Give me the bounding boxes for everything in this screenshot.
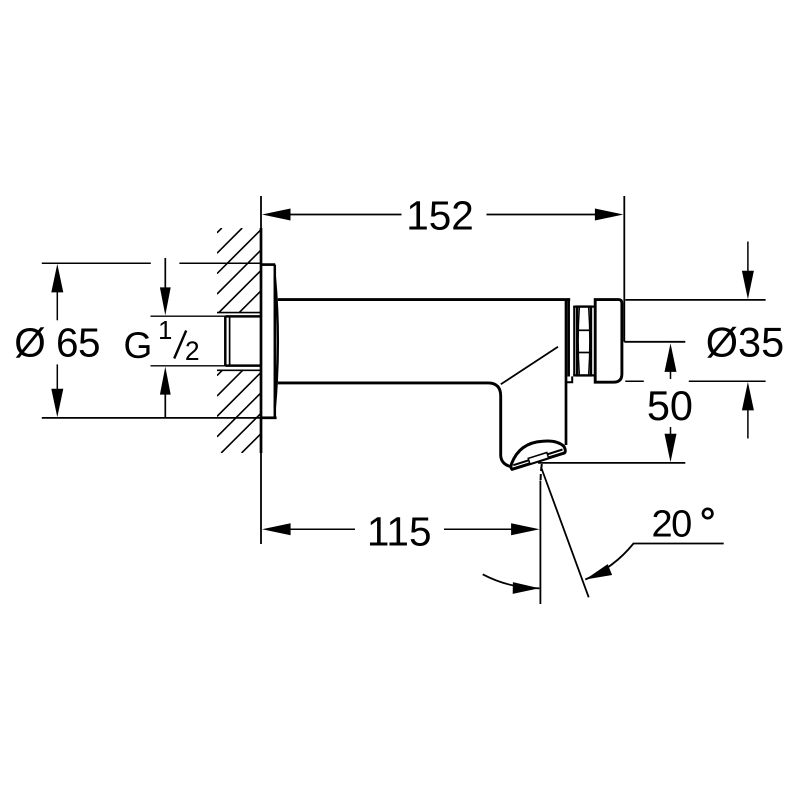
dim 152 left extension line (wall face top) <box>260 196 262 263</box>
flange dome arc <box>275 277 278 408</box>
body bottom edge and spout left edge <box>278 383 511 467</box>
wall face line <box>260 228 263 453</box>
dim Ø35 upper arrow (down) <box>742 242 754 300</box>
dim Ø65 bottom arrow <box>51 389 63 418</box>
fraction slash <box>174 331 186 359</box>
dim 152 left arrow <box>262 209 291 221</box>
dim G1/2 upper arrow (down) <box>160 258 171 315</box>
nipple chamfer line <box>229 317 231 365</box>
svg-text:Ø35: Ø35 <box>706 319 784 366</box>
angle 20° left arc <box>483 574 540 588</box>
valve seat step notch <box>566 376 572 382</box>
dim 152 right arrow <box>595 209 624 221</box>
nut facet lines <box>577 330 591 352</box>
dim G1/2 bottom extension line <box>151 365 226 367</box>
angle 20° right arc leader <box>585 544 723 580</box>
svg-text:20: 20 <box>652 503 692 545</box>
outlet body outline <box>511 441 565 469</box>
dim Ø35 top extension line <box>625 299 765 301</box>
dim 115 dimension line <box>290 528 512 530</box>
dim 152 dimension line <box>290 214 596 216</box>
angle 20° right arc arrow <box>585 564 612 579</box>
svg-text:115: 115 <box>367 509 432 555</box>
dim 50 bottom extension line <box>538 462 685 464</box>
svg-text:152: 152 <box>406 192 474 238</box>
dim 115 right arrow <box>511 523 539 535</box>
dim 50 upper arrow (up) <box>665 343 677 379</box>
hex nut <box>577 307 591 376</box>
dim Ø65 bottom extension line <box>42 417 261 419</box>
spout shoulder line <box>501 347 558 385</box>
angle 20° degree symbol <box>703 509 712 518</box>
outlet slot <box>528 453 548 464</box>
svg-text:1: 1 <box>158 317 172 345</box>
dim 115 dashed outlet trace <box>541 464 542 480</box>
dim 50 lower arrow (down) <box>665 427 677 462</box>
dim 115 left arrow <box>262 523 291 535</box>
angle 20° left arc arrow <box>513 582 540 594</box>
escutcheon flange <box>261 265 277 418</box>
outlet rim line <box>513 450 562 466</box>
dim Ø65 top extension line <box>42 262 261 264</box>
dim Ø35 bottom extension line <box>625 380 765 382</box>
body top edge <box>278 298 570 301</box>
nut chamfer edges <box>578 308 590 375</box>
spout right edge / body end cap <box>565 300 568 445</box>
svg-text:G: G <box>124 325 153 366</box>
wall hatching <box>217 228 261 453</box>
angle 20° slant line <box>541 468 589 598</box>
dim 115 wall extension line (lower wall face) <box>260 453 262 544</box>
dim 152 right extension line <box>623 196 625 342</box>
svg-text:50: 50 <box>647 382 693 429</box>
dim Ø65 top arrow <box>51 264 63 293</box>
dim Ø65 dimension line <box>56 290 58 390</box>
dim G1/2 top extension line <box>151 315 226 317</box>
dim 115 right extension line <box>539 481 541 605</box>
dim 50 top extension line <box>624 341 685 343</box>
push-button knob <box>595 300 622 383</box>
dim G1/2 lower arrow (up) <box>160 367 171 417</box>
body end cap inner line <box>567 300 570 377</box>
threaded nipple G1/2 <box>225 316 261 365</box>
wall hole top edge <box>217 312 261 314</box>
collar ring lines <box>573 307 595 376</box>
wall hole bottom edge <box>217 369 261 371</box>
svg-text:2: 2 <box>185 336 200 366</box>
dim Ø35 lower arrow (up) <box>742 382 754 439</box>
svg-text:Ø 65: Ø 65 <box>14 320 100 366</box>
